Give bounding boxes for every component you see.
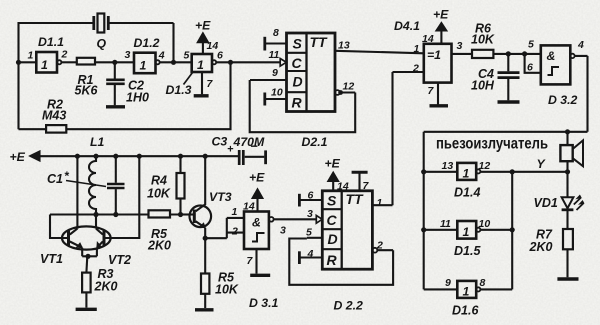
svg-text:12: 12 <box>479 160 491 172</box>
svg-text:14: 14 <box>207 40 219 52</box>
svg-text:D 3.2: D 3.2 <box>548 93 578 107</box>
svg-text:1: 1 <box>463 285 470 299</box>
svg-text:D1.2: D1.2 <box>134 36 160 50</box>
svg-text:D: D <box>293 74 303 90</box>
svg-text:10K: 10K <box>215 283 239 297</box>
svg-text:D 3.1: D 3.1 <box>249 296 279 310</box>
svg-text:пьезоизлучатель: пьезоизлучатель <box>436 136 548 153</box>
svg-text:10: 10 <box>271 87 283 99</box>
svg-text:470M: 470M <box>233 135 266 149</box>
svg-text:M43: M43 <box>42 109 66 123</box>
svg-text:&: & <box>547 49 556 63</box>
svg-text:13: 13 <box>442 160 454 172</box>
svg-text:L1: L1 <box>90 135 105 149</box>
svg-text:D1.5: D1.5 <box>454 244 481 258</box>
svg-text:D1.6: D1.6 <box>452 304 479 318</box>
svg-text:10H: 10H <box>471 79 495 93</box>
svg-text:11: 11 <box>440 218 451 230</box>
svg-text:TT: TT <box>310 34 329 50</box>
svg-text:1: 1 <box>463 225 470 239</box>
svg-text:4: 4 <box>158 50 165 62</box>
svg-text:5: 5 <box>184 50 190 62</box>
svg-text:2: 2 <box>231 226 238 238</box>
svg-text:3: 3 <box>457 40 463 52</box>
svg-text:9: 9 <box>272 67 278 79</box>
svg-text:14: 14 <box>337 181 349 193</box>
svg-text:D1.1: D1.1 <box>38 35 64 49</box>
svg-text:14: 14 <box>422 33 434 45</box>
svg-text:=1: =1 <box>427 48 441 62</box>
svg-text:4: 4 <box>307 248 314 260</box>
svg-text:3: 3 <box>307 208 313 220</box>
svg-text:5: 5 <box>306 227 312 239</box>
svg-text:VD1: VD1 <box>534 196 558 210</box>
svg-text:+E: +E <box>10 150 26 164</box>
svg-text:C: C <box>327 212 338 228</box>
svg-text:6: 6 <box>527 62 533 74</box>
svg-text:12: 12 <box>343 81 355 93</box>
svg-text:3: 3 <box>125 49 131 61</box>
svg-text:Q: Q <box>97 37 107 51</box>
svg-text:1: 1 <box>232 206 238 218</box>
svg-text:2K0: 2K0 <box>529 240 553 254</box>
svg-text:1: 1 <box>140 59 147 73</box>
svg-text:10K: 10K <box>147 187 171 201</box>
svg-text:+E: +E <box>433 8 449 22</box>
svg-text:+E: +E <box>249 171 265 185</box>
svg-text:11: 11 <box>269 49 280 61</box>
svg-text:3: 3 <box>280 225 286 237</box>
svg-text:VT1: VT1 <box>40 252 63 266</box>
svg-text:S: S <box>293 36 303 52</box>
svg-text:1: 1 <box>463 167 470 181</box>
svg-text:+E: +E <box>325 157 341 171</box>
svg-text:&: & <box>252 216 261 230</box>
svg-text:14: 14 <box>243 201 255 213</box>
svg-text:R: R <box>327 252 338 268</box>
svg-text:VT2: VT2 <box>108 253 131 267</box>
svg-text:8: 8 <box>480 277 486 289</box>
svg-text:2K0: 2K0 <box>147 239 171 253</box>
svg-text:10: 10 <box>479 218 491 230</box>
svg-text:13: 13 <box>338 40 350 52</box>
svg-text:9: 9 <box>445 277 451 289</box>
svg-text:1: 1 <box>197 58 204 72</box>
svg-text:2: 2 <box>61 49 68 61</box>
svg-text:+: + <box>227 144 234 156</box>
svg-text:D 2.2: D 2.2 <box>334 299 364 313</box>
svg-text:1H0: 1H0 <box>126 91 149 105</box>
svg-text:2: 2 <box>412 63 419 75</box>
svg-text:TT: TT <box>346 191 365 207</box>
svg-text:8: 8 <box>273 27 279 39</box>
svg-text:1: 1 <box>377 197 383 209</box>
svg-text:D2.1: D2.1 <box>302 135 328 149</box>
svg-text:5K6: 5K6 <box>75 84 99 98</box>
svg-text:1: 1 <box>414 43 420 55</box>
svg-text:−: − <box>250 139 258 154</box>
svg-text:C1: C1 <box>47 172 63 186</box>
svg-text:4: 4 <box>577 39 584 51</box>
svg-text:S: S <box>327 193 337 209</box>
svg-text:D4.1: D4.1 <box>394 19 420 33</box>
svg-text:5: 5 <box>528 39 534 51</box>
svg-text:6: 6 <box>308 190 314 202</box>
svg-text:1: 1 <box>41 58 48 72</box>
svg-text:R4: R4 <box>151 174 167 188</box>
svg-text:2K0: 2K0 <box>94 280 118 294</box>
svg-text:R: R <box>292 95 303 111</box>
svg-text:+E: +E <box>195 19 211 33</box>
svg-text:C: C <box>292 55 303 71</box>
svg-text:2: 2 <box>376 240 383 252</box>
svg-text:C3: C3 <box>212 135 228 149</box>
svg-text:1: 1 <box>28 50 34 62</box>
svg-text:VT3: VT3 <box>209 190 232 204</box>
svg-text:D: D <box>328 231 338 247</box>
svg-text:10K: 10K <box>471 33 495 47</box>
svg-text:D1.4: D1.4 <box>454 186 480 200</box>
svg-text:D1.3: D1.3 <box>166 83 192 97</box>
